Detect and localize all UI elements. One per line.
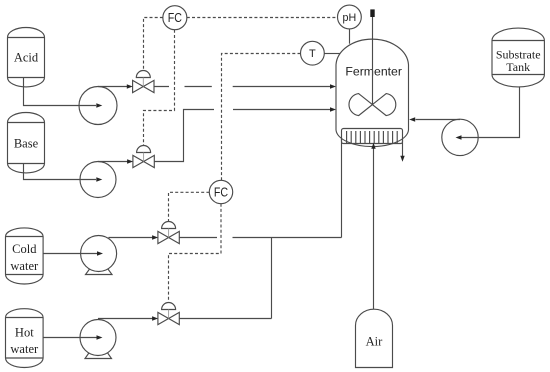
svg-text:FC: FC [168, 11, 182, 25]
svg-text:Acid: Acid [14, 51, 39, 65]
svg-text:Air: Air [366, 335, 384, 349]
svg-text:water: water [10, 342, 39, 356]
svg-text:FC: FC [214, 186, 228, 200]
svg-text:Fermenter: Fermenter [345, 64, 402, 78]
svg-text:T: T [309, 48, 316, 60]
svg-text:Base: Base [14, 137, 39, 151]
svg-text:Tank: Tank [506, 60, 530, 74]
svg-text:Hot: Hot [15, 325, 34, 339]
svg-text:Cold: Cold [12, 242, 37, 256]
svg-text:pH: pH [343, 12, 357, 24]
svg-text:water: water [10, 259, 39, 273]
